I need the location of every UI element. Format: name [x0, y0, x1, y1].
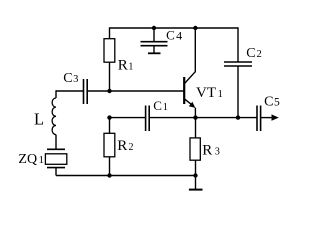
wire R3 top lead [195, 118, 197, 138]
capacitor C2 [224, 27, 262, 117]
node dot R2 / bottom rail [107, 173, 111, 177]
node dot C2 junction [236, 115, 240, 119]
capacitor C5 [238, 94, 280, 131]
wire R1 bottom lead [109, 62, 111, 91]
node dot ground / bottom rail [193, 173, 197, 177]
inductor L [52, 98, 56, 135]
crystal ZQ1 [18, 149, 66, 167]
wire R1 top riser [109, 27, 111, 38]
node dot emitter junction [193, 115, 197, 119]
wire R2 bottom lead [109, 157, 111, 176]
wire left branch corner down [55, 90, 57, 98]
svg-text:L: L [34, 110, 44, 129]
node dot C3 row / R divider [107, 89, 111, 93]
wire crystal to bottom rail [55, 168, 57, 176]
capacitor C1 [146, 98, 168, 131]
resistor R2 [104, 133, 115, 157]
node dot C4/top rail [152, 26, 156, 30]
svg-text:ZQ1: ZQ1 [18, 152, 44, 167]
wire base row (C3 node row) [56, 90, 83, 92]
resistor R1 [104, 39, 115, 63]
wire top rail [110, 27, 239, 29]
transistor VT1 [184, 27, 223, 117]
svg-text:C5: C5 [264, 94, 280, 109]
wire R2 top lead [109, 118, 111, 134]
wire R3 bottom lead [195, 160, 197, 175]
node dot collector/top rail [193, 26, 197, 30]
svg-text:C4: C4 [166, 27, 182, 42]
capacitor C3 [63, 71, 87, 104]
svg-text:C2: C2 [246, 46, 262, 61]
capacitor C4 [141, 27, 183, 53]
wire L to crystal [55, 135, 57, 150]
wire bottom rail [56, 175, 196, 177]
svg-text:C3: C3 [63, 71, 78, 86]
wire C1 row [110, 117, 146, 119]
output arrow [272, 114, 279, 120]
node dot C1 row left [107, 115, 111, 119]
ground [189, 176, 203, 190]
resistor R3 [190, 138, 200, 160]
